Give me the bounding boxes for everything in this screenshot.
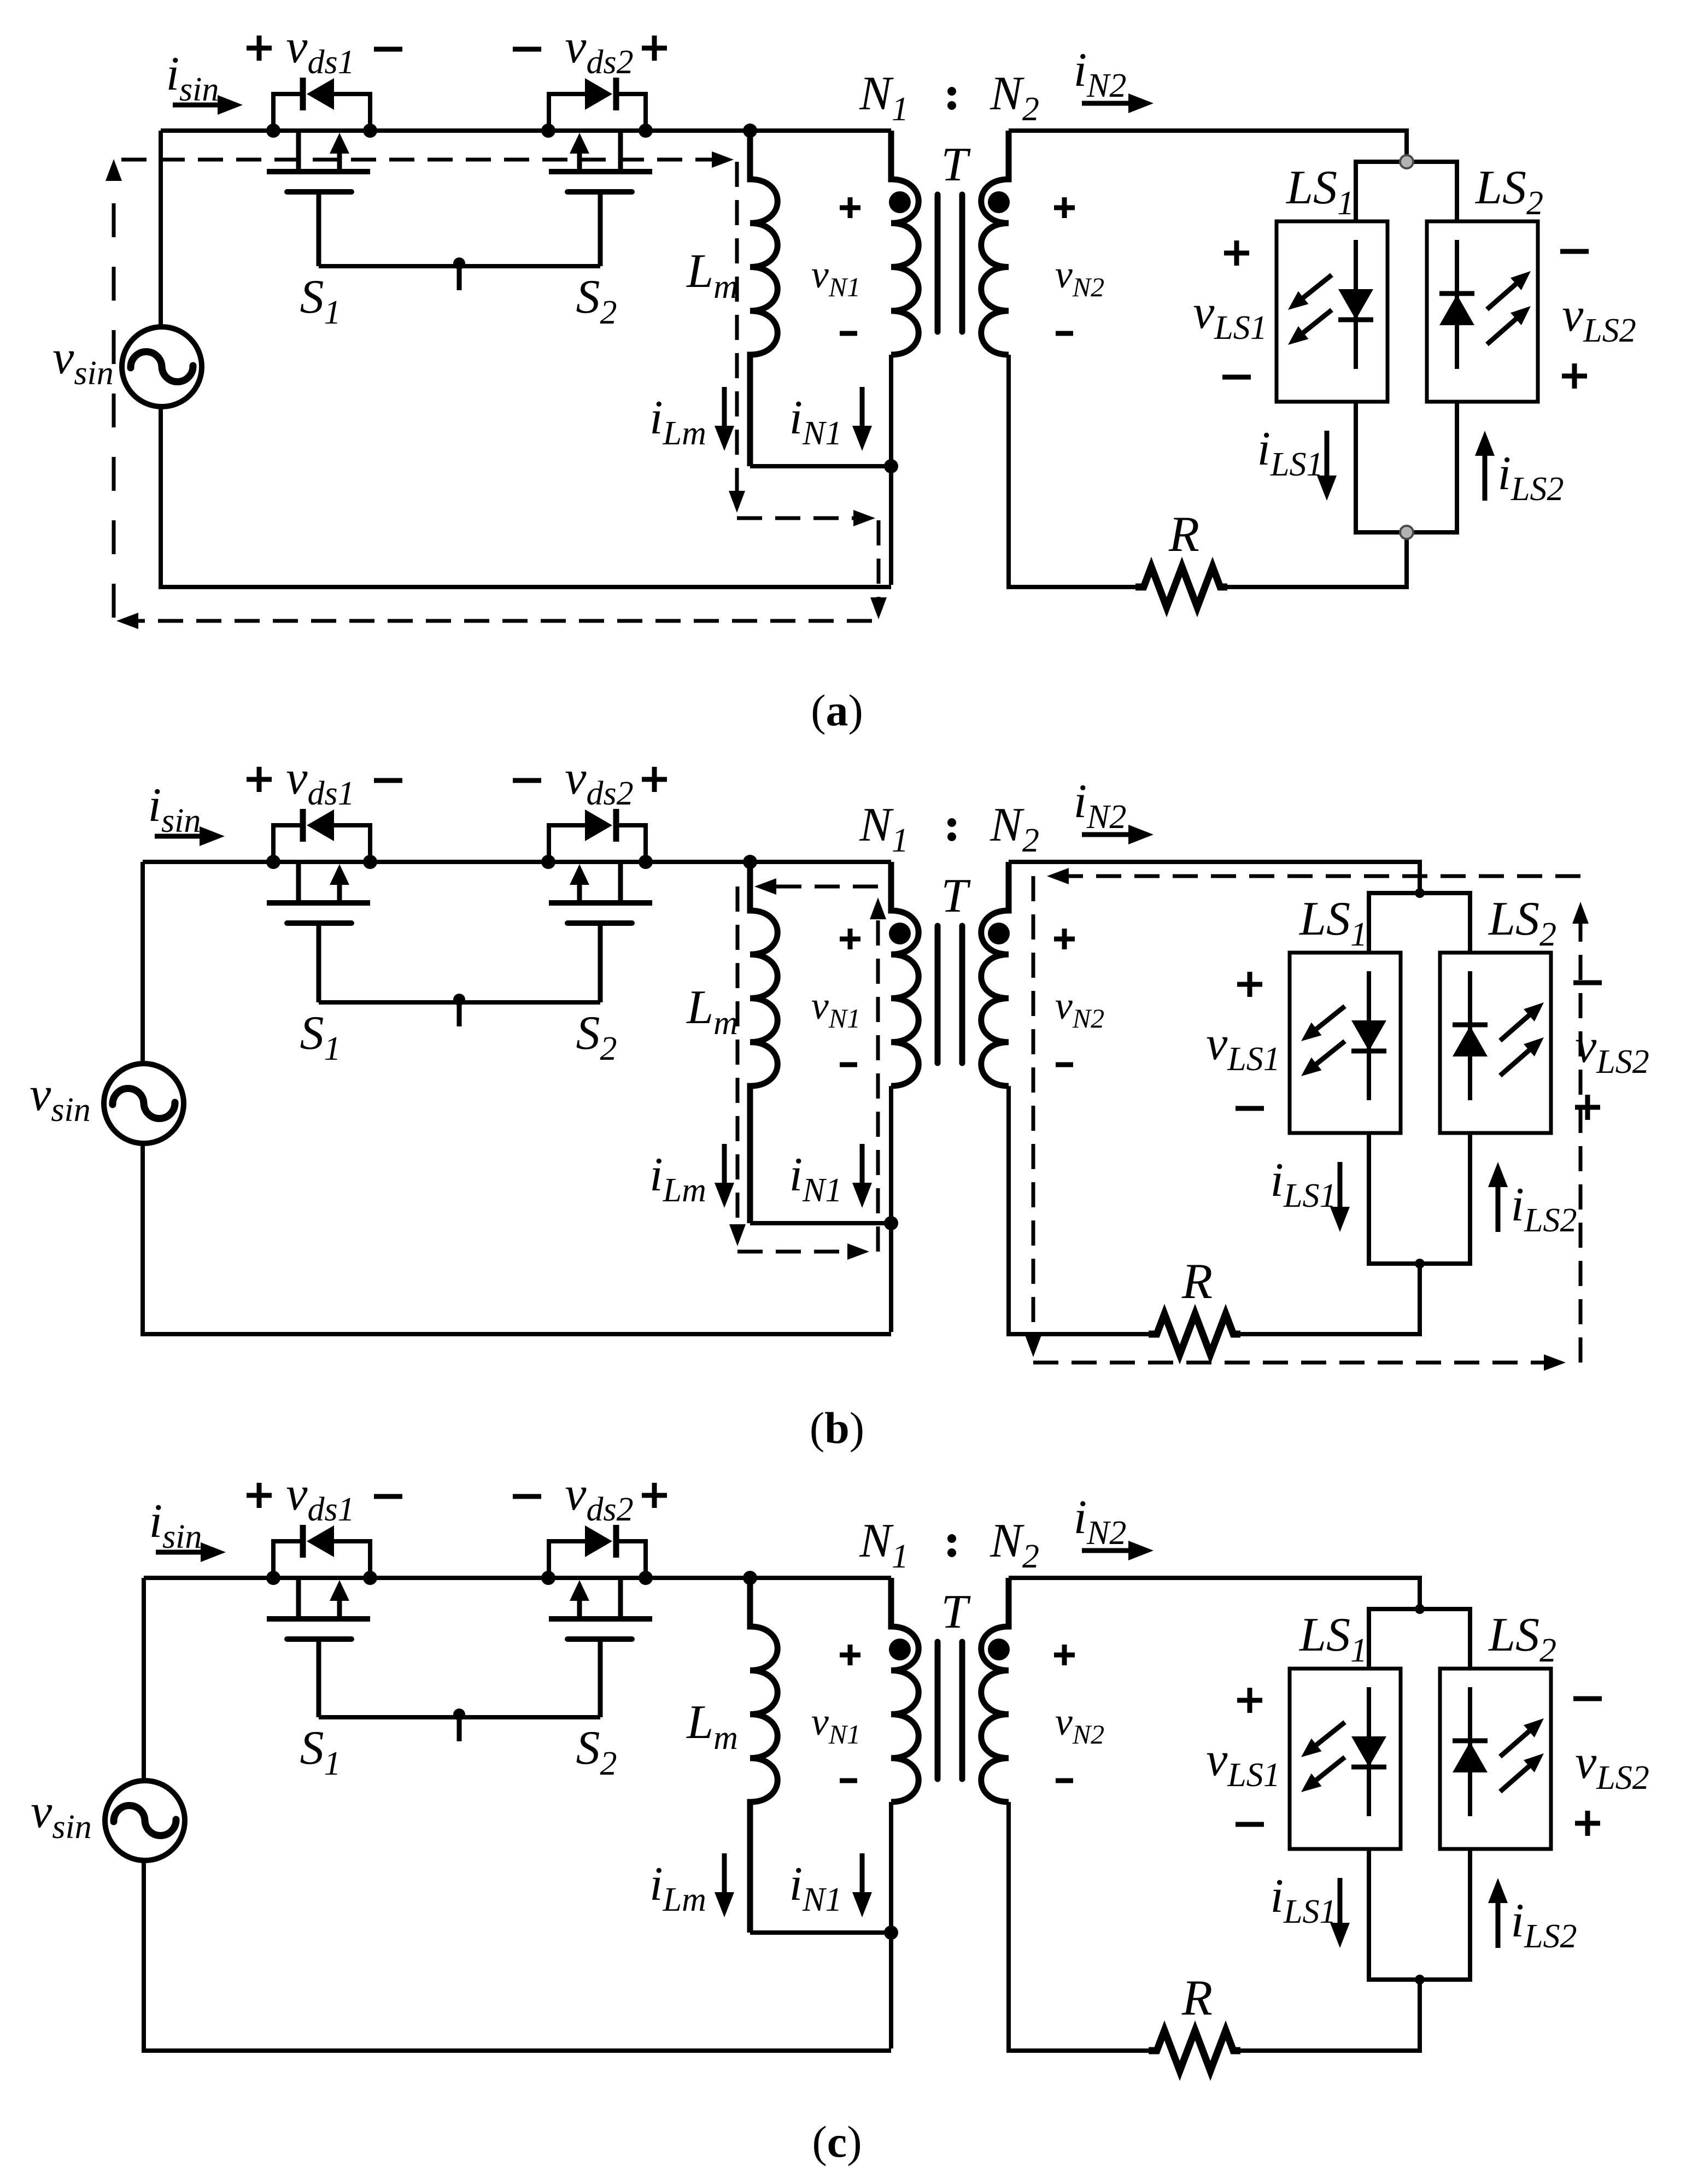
node (drain) S2 xyxy=(541,124,555,138)
LED symbol LS2 xyxy=(1453,971,1544,1100)
label + (vds2) xyxy=(642,36,667,61)
node gate midpoint xyxy=(453,1709,465,1721)
wire: N2 lower lead xyxy=(1006,355,1011,589)
svg-text:S1: S1 xyxy=(300,1007,341,1067)
wire: N1 lower lead xyxy=(889,1802,893,2048)
svg-text:S2: S2 xyxy=(576,1007,617,1067)
node (source) S1 xyxy=(363,1571,377,1585)
svg-text:vN2: vN2 xyxy=(1055,984,1104,1034)
wire: gate stub xyxy=(457,266,462,290)
wire: N2 lower lead xyxy=(1006,1802,1011,2053)
label + (vN1) xyxy=(840,1645,860,1665)
wire: secondary corner drop xyxy=(1418,1578,1422,1609)
LED symbol LS1 xyxy=(1301,971,1386,1100)
label + (vN2) xyxy=(1054,1645,1075,1665)
svg-text:vds1: vds1 xyxy=(286,20,354,81)
svg-text:LS2: LS2 xyxy=(1488,893,1556,953)
current arrow iLS2 xyxy=(1483,453,1488,501)
svg-text:vsin: vsin xyxy=(30,1068,90,1129)
current arrow iLm xyxy=(722,387,727,429)
LED symbol LS2 xyxy=(1453,1687,1544,1816)
inductor Lm xyxy=(750,862,777,1223)
dashed loop Lm-N1 right xyxy=(876,912,880,1252)
label - (vLS1) xyxy=(1236,1822,1264,1827)
winding N1 xyxy=(891,1578,918,1802)
svg-text:vLS2: vLS2 xyxy=(1575,1020,1649,1081)
label + (vds2) xyxy=(642,1483,667,1508)
label - (vN2) xyxy=(1056,1778,1073,1783)
svg-text:isin: isin xyxy=(148,779,201,839)
wire: LED top bar xyxy=(1354,160,1459,164)
body diode S2 xyxy=(549,1525,646,1578)
label - (vN1) xyxy=(840,1778,857,1783)
dashed path outer left xyxy=(112,174,116,618)
svg-text:LS1: LS1 xyxy=(1285,161,1354,222)
dashed arrow down (sec loop) xyxy=(1025,1335,1041,1357)
wire: LED top bar xyxy=(1367,891,1472,895)
wire: secondary bottom riser xyxy=(1418,1980,1422,2053)
wire: LS1 top branch xyxy=(1367,1609,1371,1669)
wire: Lm bottom link xyxy=(750,464,891,468)
phase dot N1 xyxy=(889,1639,911,1660)
wire: LS1 top branch xyxy=(1354,162,1358,221)
winding N1 xyxy=(891,862,918,1086)
svg-text:LS1: LS1 xyxy=(1298,1608,1367,1669)
svg-text:vLS2: vLS2 xyxy=(1562,289,1636,349)
svg-text:iLS1: iLS1 xyxy=(1271,1870,1337,1930)
current arrow iN1 xyxy=(860,1853,865,1895)
dashed arrow right (iLm) xyxy=(853,510,875,526)
svg-text:S2: S2 xyxy=(576,1722,617,1782)
svg-text:iLS1: iLS1 xyxy=(1257,422,1324,483)
wire: secondary bottom riser xyxy=(1418,1264,1422,1336)
label + (vLS2) xyxy=(1562,363,1587,389)
svg-text:Lm: Lm xyxy=(686,1696,738,1757)
svg-text:iLm: iLm xyxy=(649,391,706,452)
wire: secondary bottom rail left xyxy=(1009,585,1135,589)
phase dot N1 xyxy=(889,191,911,213)
svg-text:iN1: iN1 xyxy=(789,391,842,452)
resistor R xyxy=(1149,2030,1240,2071)
wire: secondary bottom rail right xyxy=(1227,585,1407,589)
dashed path outer bottom xyxy=(131,619,872,623)
label + (vN2) xyxy=(1054,197,1075,218)
wire: gate stub xyxy=(457,1002,462,1026)
body diode S2 xyxy=(549,809,646,862)
dashed loop secondary top xyxy=(1061,874,1580,878)
winding N2 xyxy=(981,1578,1009,1802)
svg-text:iLS2: iLS2 xyxy=(1498,447,1564,508)
svg-text:iLS2: iLS2 xyxy=(1511,1178,1577,1239)
LED string LS2 box xyxy=(1440,953,1551,1133)
wire: secondary top rail xyxy=(1009,128,1409,133)
dashed arrow left (outer) xyxy=(116,613,138,629)
svg-text:vN1: vN1 xyxy=(811,253,860,302)
body diode S1 xyxy=(273,809,370,862)
svg-text:vLS1: vLS1 xyxy=(1206,1733,1280,1794)
svg-text:vds1: vds1 xyxy=(286,1467,354,1528)
label - (vds2) xyxy=(513,47,541,52)
svg-text:vN1: vN1 xyxy=(811,984,860,1034)
svg-text:R: R xyxy=(1181,1970,1213,2026)
wire: fig c left branch upper xyxy=(142,1578,146,1778)
dashed path outer top xyxy=(121,158,719,162)
wire: LS1 bottom branch xyxy=(1354,402,1358,532)
label : (ratio) xyxy=(947,1534,956,1557)
wire: LED bottom bar xyxy=(1354,530,1459,535)
transistor body S2 xyxy=(549,131,652,266)
wire: gate bus xyxy=(319,1000,600,1005)
source vsin (fig b) xyxy=(104,1064,184,1143)
wire: LED bottom bar xyxy=(1367,1261,1472,1266)
wire: fig a bottom rail xyxy=(159,585,891,589)
transformer core bars xyxy=(938,1642,962,1779)
node gate midpoint xyxy=(453,994,465,1006)
body diode S1 xyxy=(273,78,370,131)
svg-text:vLS1: vLS1 xyxy=(1193,286,1267,347)
transistor body S1 xyxy=(267,862,370,1002)
dashed loop secondary bottom xyxy=(1033,1361,1550,1365)
wire: fig a left branch lower xyxy=(159,409,163,589)
wire: secondary corner drop xyxy=(1404,131,1409,162)
phase dot N1 xyxy=(889,923,911,944)
wire: secondary top rail xyxy=(1009,1576,1422,1580)
label - (vds2) xyxy=(513,1494,541,1499)
svg-text:N1: N1 xyxy=(859,799,909,859)
transistor body S1 xyxy=(267,1578,370,1717)
dashed arrow up (Lm loop) xyxy=(870,897,886,919)
svg-text:N2: N2 xyxy=(990,67,1039,128)
wire: fig b left branch upper xyxy=(140,862,145,1061)
label + (vds1) xyxy=(247,36,272,61)
svg-text:T: T xyxy=(941,1586,971,1639)
wire: secondary bottom rail right xyxy=(1240,2048,1420,2053)
label + (vds2) xyxy=(642,767,667,792)
dashed loop secondary right xyxy=(1579,916,1583,1363)
label : (ratio) xyxy=(947,818,956,841)
current arrow iLS1 xyxy=(1325,431,1330,479)
wire: Lm bottom link xyxy=(750,1930,891,1935)
winding N1 xyxy=(891,131,918,355)
LED string LS2 box xyxy=(1440,1669,1551,1849)
current arrow iN2 xyxy=(1082,1548,1132,1553)
svg-text:iLS1: iLS1 xyxy=(1271,1154,1337,1214)
current arrow iN1 xyxy=(860,1144,865,1186)
label - (vLS2) xyxy=(1560,249,1589,254)
svg-text:iN2: iN2 xyxy=(1074,1491,1127,1552)
node (drain) S2 xyxy=(541,855,555,869)
current arrow iLm xyxy=(722,1144,727,1186)
wire: LS1 bottom branch xyxy=(1367,1133,1371,1264)
label - (vLS1) xyxy=(1222,375,1251,380)
svg-text:Lm: Lm xyxy=(686,981,738,1042)
wire: LED bottom bar xyxy=(1367,1977,1472,1982)
svg-text:N1: N1 xyxy=(859,67,909,128)
wire: N2 lower lead xyxy=(1006,1086,1011,1336)
label + (vLS2) xyxy=(1575,1811,1600,1836)
transistor body S2 xyxy=(549,1578,652,1717)
svg-text:vds2: vds2 xyxy=(565,20,633,81)
dashed arrow up (sec loop) xyxy=(1572,902,1589,924)
node Lm top xyxy=(743,124,757,138)
dashed arrow left (sec loop) xyxy=(1047,868,1069,884)
body diode S1 xyxy=(273,1525,370,1578)
node Lm bottom junction xyxy=(884,459,898,473)
dashed arrow right (outer top) xyxy=(712,151,734,168)
wire: LS2 bottom branch xyxy=(1468,1849,1472,1980)
dashed path iLm vertical xyxy=(735,162,739,498)
svg-text:LS2: LS2 xyxy=(1474,161,1543,222)
resistor R xyxy=(1149,1314,1240,1354)
current arrow isin xyxy=(156,1550,204,1555)
label + (vN1) xyxy=(840,929,860,949)
svg-text:N2: N2 xyxy=(990,799,1039,859)
wire: fig b top rail xyxy=(143,860,891,864)
svg-text:vN2: vN2 xyxy=(1055,253,1104,302)
dashed loop Lm-N1 bottom xyxy=(737,1250,854,1254)
LED string LS2 box xyxy=(1427,221,1538,402)
current arrow iN1 xyxy=(860,387,865,429)
label - (vLS2) xyxy=(1573,981,1602,985)
current arrow iLS1 xyxy=(1338,1878,1343,1926)
node secondary bottom xyxy=(1400,526,1413,539)
LED string LS1 box xyxy=(1290,1669,1401,1849)
node secondary top xyxy=(1400,155,1413,168)
wire: fig a top rail xyxy=(161,128,891,133)
label + (vLS1) xyxy=(1224,240,1249,266)
current arrow iLS1 xyxy=(1338,1162,1343,1210)
LED symbol LS1 xyxy=(1301,1687,1386,1816)
current arrow iLm xyxy=(722,1853,727,1895)
current arrow iLS2 xyxy=(1496,1184,1501,1232)
svg-text:LS2: LS2 xyxy=(1488,1608,1556,1669)
inductor Lm xyxy=(750,1578,777,1933)
svg-text:isin: isin xyxy=(166,48,219,108)
dashed arrow up (outer) xyxy=(106,159,122,181)
wire: secondary bottom rail right xyxy=(1240,1332,1420,1336)
dashed arrow down (Lm loop) xyxy=(729,1224,746,1246)
svg-text:vN1: vN1 xyxy=(811,1700,860,1749)
svg-text:R: R xyxy=(1181,1253,1213,1309)
svg-text:iLS2: iLS2 xyxy=(1511,1894,1577,1955)
source vsin (fig a) xyxy=(122,327,202,407)
node secondary top xyxy=(1415,888,1425,898)
node secondary bottom xyxy=(1415,1259,1425,1269)
svg-text:(a): (a) xyxy=(811,685,863,735)
LED symbol LS1 xyxy=(1288,240,1373,369)
transformer core bars xyxy=(938,926,962,1063)
wire: fig c top rail xyxy=(144,1576,891,1580)
wire: secondary corner drop xyxy=(1418,862,1422,893)
node secondary bottom xyxy=(1415,1975,1425,1985)
dashed arrow right (sec loop) xyxy=(1544,1354,1566,1371)
dashed loop secondary left xyxy=(1032,876,1035,1342)
label + (vds1) xyxy=(247,1483,272,1508)
node (drain) S1 xyxy=(266,855,280,869)
node (source) S1 xyxy=(363,124,377,138)
svg-text:N2: N2 xyxy=(990,1514,1039,1575)
wire: LS2 top branch xyxy=(1468,893,1472,953)
wire: secondary bottom riser xyxy=(1404,532,1409,589)
svg-text:S1: S1 xyxy=(300,1722,341,1782)
label - (vN1) xyxy=(840,331,857,336)
label - (vds2) xyxy=(513,778,541,783)
label + (vN1) xyxy=(840,197,860,218)
wire: gate bus xyxy=(319,264,600,268)
node (drain) S1 xyxy=(266,1571,280,1585)
current arrow isin xyxy=(155,834,203,839)
svg-text:isin: isin xyxy=(149,1495,202,1555)
transformer core bars xyxy=(938,195,962,332)
svg-text:vLS1: vLS1 xyxy=(1206,1017,1280,1078)
label - (vds1) xyxy=(374,47,402,52)
label + (vLS2) xyxy=(1575,1095,1600,1120)
svg-text:iN1: iN1 xyxy=(789,1148,842,1209)
wire: fig b bottom rail xyxy=(140,1332,891,1336)
label + (vLS1) xyxy=(1237,972,1262,997)
wire: gate stub xyxy=(457,1717,462,1741)
node (source) S1 xyxy=(363,855,377,869)
node secondary top xyxy=(1415,1604,1425,1614)
label - (vds1) xyxy=(374,1494,402,1499)
LED string LS1 box xyxy=(1290,953,1401,1133)
svg-text:S2: S2 xyxy=(576,271,617,331)
wire: N1 lower lead xyxy=(889,355,893,585)
node Lm bottom junction xyxy=(884,1216,898,1230)
wire: LS1 bottom branch xyxy=(1367,1849,1371,1980)
node Lm top xyxy=(743,1571,757,1585)
label : (ratio) xyxy=(947,87,956,110)
svg-text:iLm: iLm xyxy=(649,1148,706,1209)
wire: LS2 top branch xyxy=(1468,1609,1472,1669)
dashed arrow down (iLm) xyxy=(729,491,745,513)
source vsin (fig c) xyxy=(105,1781,185,1860)
transistor body S2 xyxy=(549,862,652,1002)
label - (vN2) xyxy=(1056,1062,1073,1067)
node gate midpoint xyxy=(453,257,465,269)
svg-text:iN2: iN2 xyxy=(1074,44,1127,104)
phase dot N2 xyxy=(988,923,1010,944)
svg-text:vds2: vds2 xyxy=(565,1467,633,1528)
label - (vN2) xyxy=(1056,331,1073,336)
wire: N1 lower lead xyxy=(889,1086,893,1332)
label + (vds1) xyxy=(247,767,272,792)
LED symbol LS2 xyxy=(1439,240,1531,369)
svg-text:T: T xyxy=(941,138,971,191)
label - (vLS1) xyxy=(1236,1106,1264,1111)
label + (vLS1) xyxy=(1237,1688,1262,1713)
svg-text:S1: S1 xyxy=(300,271,341,331)
wire: LED top bar xyxy=(1367,1607,1472,1611)
svg-text:R: R xyxy=(1168,506,1199,562)
svg-text:vsin: vsin xyxy=(52,331,113,392)
node (drain) S1 xyxy=(266,124,280,138)
transistor body S1 xyxy=(267,131,370,266)
wire: secondary top rail xyxy=(1009,860,1422,864)
label - (vds1) xyxy=(374,778,402,783)
svg-text:vLS2: vLS2 xyxy=(1575,1736,1649,1796)
wire: fig a left branch upper xyxy=(159,131,163,325)
winding N2 xyxy=(981,131,1009,355)
svg-text:LS1: LS1 xyxy=(1298,893,1367,953)
winding N2 xyxy=(981,862,1009,1086)
svg-text:(b): (b) xyxy=(810,1403,864,1453)
body diode S2 xyxy=(549,78,646,131)
LED string LS1 box xyxy=(1277,221,1387,402)
phase dot N2 xyxy=(988,191,1010,213)
svg-text:vds1: vds1 xyxy=(286,752,354,812)
wire: Lm bottom link xyxy=(750,1221,891,1225)
wire: LS2 bottom branch xyxy=(1468,1133,1472,1264)
dashed loop Lm-N1 left xyxy=(736,886,740,1231)
wire: fig b left branch lower xyxy=(140,1146,145,1336)
wire: fig c left branch lower xyxy=(142,1863,146,2053)
wire: secondary bottom rail left xyxy=(1009,2048,1149,2053)
svg-text:N1: N1 xyxy=(859,1514,909,1575)
svg-text:vN2: vN2 xyxy=(1055,1700,1104,1749)
label - (vN1) xyxy=(840,1062,857,1067)
inductor Lm xyxy=(750,131,777,466)
current arrow iN2 xyxy=(1082,101,1132,106)
node (source) S2 xyxy=(639,124,653,138)
current arrow iLS2 xyxy=(1496,1900,1501,1948)
wire: LS1 top branch xyxy=(1367,893,1371,953)
current arrow isin xyxy=(173,103,221,108)
dashed arrow left (Lm loop) xyxy=(754,878,776,895)
wire: secondary bottom rail left xyxy=(1009,1332,1149,1336)
node (source) S2 xyxy=(639,1571,653,1585)
svg-text:T: T xyxy=(941,870,971,923)
svg-text:vds2: vds2 xyxy=(565,752,633,812)
dashed path outer right xyxy=(877,520,881,606)
svg-text:iN1: iN1 xyxy=(789,1858,842,1918)
label - (vLS2) xyxy=(1573,1696,1602,1701)
svg-text:(c): (c) xyxy=(812,2117,862,2167)
resistor R xyxy=(1135,567,1227,607)
node (drain) S2 xyxy=(541,1571,555,1585)
node Lm top xyxy=(743,855,757,869)
node (source) S2 xyxy=(639,855,653,869)
svg-text:Lm: Lm xyxy=(686,245,738,306)
node Lm bottom junction xyxy=(884,1925,898,1940)
wire: LS2 top branch xyxy=(1455,162,1459,221)
svg-text:vsin: vsin xyxy=(31,1785,91,1846)
wire: LS2 bottom branch xyxy=(1455,402,1459,532)
dashed arrow down (outer) xyxy=(870,597,887,619)
svg-text:iLm: iLm xyxy=(649,1858,706,1918)
phase dot N2 xyxy=(988,1639,1010,1660)
wire: fig c bottom rail xyxy=(142,2048,891,2053)
svg-text:iN2: iN2 xyxy=(1074,775,1127,836)
dashed loop Lm-N1 top xyxy=(768,885,878,889)
label + (vN2) xyxy=(1054,929,1075,949)
current arrow iN2 xyxy=(1082,832,1132,837)
dashed path iLm horizontal xyxy=(737,516,859,520)
dashed arrow right (Lm loop) xyxy=(847,1243,869,1260)
wire: gate bus xyxy=(319,1715,600,1719)
